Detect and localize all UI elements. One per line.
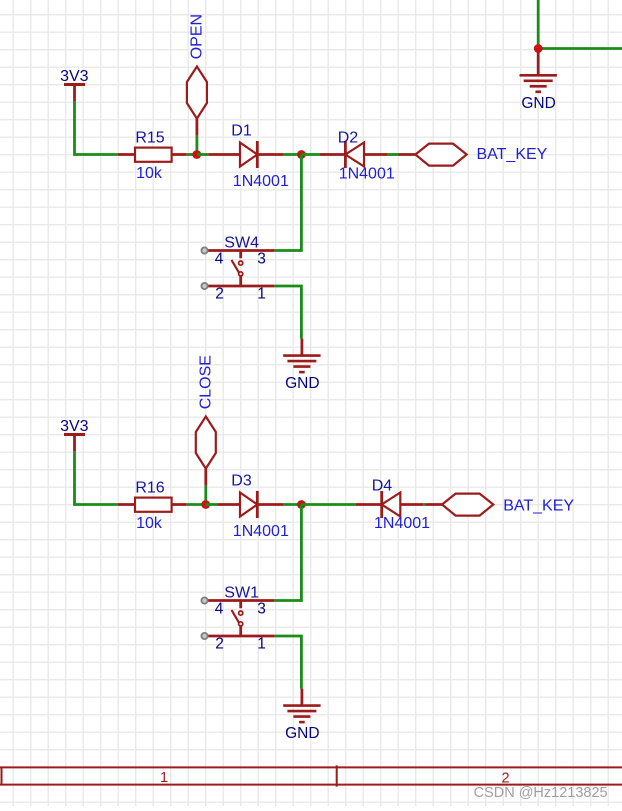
- wire diode to port: [423, 503, 425, 506]
- wire horizontal to right edge: [538, 47, 622, 50]
- resistor R15 10k: [118, 130, 187, 183]
- pin number 2: [215, 636, 224, 653]
- svg-text:R15: R15: [135, 130, 164, 147]
- wire vertical top right: [537, 0, 540, 49]
- svg-text:1N4001: 1N4001: [374, 515, 430, 532]
- ground top right: [520, 52, 557, 112]
- wire node 2 to diode D4: [301, 503, 355, 506]
- no-connect pin 2 of SW1: [201, 633, 207, 639]
- sheet border bottom lines: [0, 767, 622, 786]
- svg-text:D4: D4: [372, 478, 393, 495]
- no-connect pin 2 of SW4: [201, 283, 207, 289]
- wire switch pin 1 to ground: [274, 286, 301, 339]
- diode D3 1N4001: [217, 472, 289, 540]
- wire node 2 to diode D2: [301, 153, 319, 156]
- junction node at resistor/connector/diode: [192, 150, 201, 159]
- junction top right: [534, 44, 543, 53]
- svg-text:D1: D1: [231, 122, 252, 139]
- diode D4 1N4001 (pointing left): [356, 478, 430, 533]
- svg-text:1: 1: [160, 770, 168, 786]
- svg-text:4: 4: [215, 251, 224, 268]
- junction node 2 (to switch): [297, 500, 306, 509]
- switch SW1: [206, 585, 275, 637]
- port BAT_KEY (horizontal hexagon): [425, 494, 574, 516]
- watermark: [474, 785, 608, 801]
- sheet border zone divider: [336, 765, 338, 786]
- pin number 1: [257, 636, 266, 653]
- svg-text:4: 4: [215, 601, 224, 618]
- svg-text:CSDN @Hz1213825: CSDN @Hz1213825: [474, 785, 608, 801]
- pin number 4: [215, 251, 224, 268]
- pin number 3: [257, 601, 266, 618]
- svg-text:3V3: 3V3: [60, 68, 89, 85]
- svg-text:1: 1: [257, 636, 266, 653]
- svg-text:CLOSE: CLOSE: [198, 355, 215, 409]
- svg-text:GND: GND: [285, 375, 319, 392]
- svg-text:SW4: SW4: [224, 235, 259, 252]
- svg-text:SW1: SW1: [224, 585, 259, 602]
- junction node 2 (to switch): [297, 150, 306, 159]
- ground below switch SW4: [283, 339, 320, 393]
- wire resistor to node: [187, 503, 206, 506]
- switch SW4: [206, 235, 275, 287]
- svg-text:D2: D2: [338, 130, 359, 147]
- svg-text:3: 3: [257, 601, 266, 618]
- zone number 1: [160, 770, 168, 786]
- wire diode to node 2: [283, 153, 301, 156]
- diode D2 1N4001 (pointing left): [319, 130, 394, 183]
- svg-text:BAT_KEY: BAT_KEY: [503, 498, 574, 515]
- wire connector to node: [204, 486, 207, 505]
- svg-text:10k: 10k: [136, 165, 163, 182]
- wire switch pin 1 to ground: [274, 636, 301, 689]
- net flag connector CLOSE (vertical hexagon): [196, 355, 216, 486]
- resistor R16 10k: [118, 480, 187, 533]
- wire diode to node 2: [283, 503, 301, 506]
- no-connect pin 4 of SW1: [201, 597, 207, 603]
- ground below switch SW1: [283, 689, 320, 743]
- junction node at resistor/connector/diode: [201, 500, 210, 509]
- net flag connector OPEN (vertical hexagon): [187, 14, 207, 136]
- power symbol 3V3 (R16 rail): [60, 418, 89, 451]
- wire node to diode D3: [206, 503, 218, 506]
- svg-text:GND: GND: [285, 725, 319, 742]
- svg-text:BAT_KEY: BAT_KEY: [477, 146, 548, 163]
- wire connector to node: [195, 136, 198, 155]
- wire diode to port: [387, 153, 399, 156]
- wire 3V3 rail to resistor R16: [75, 451, 118, 504]
- svg-text:10k: 10k: [136, 515, 163, 532]
- svg-text:2: 2: [215, 286, 224, 303]
- pin number 3: [257, 251, 266, 268]
- svg-text:1N4001: 1N4001: [339, 166, 395, 183]
- diode D1 1N4001: [208, 122, 289, 190]
- svg-text:R16: R16: [135, 480, 164, 497]
- port BAT_KEY (horizontal hexagon): [399, 144, 548, 166]
- svg-text:2: 2: [215, 636, 224, 653]
- svg-text:1: 1: [257, 286, 266, 303]
- svg-text:1N4001: 1N4001: [233, 173, 289, 190]
- pin number 1: [257, 286, 266, 303]
- wire resistor to node: [187, 153, 197, 156]
- wire node 2 down to switch pin 3: [274, 155, 301, 251]
- svg-text:1N4001: 1N4001: [233, 523, 289, 540]
- power symbol 3V3 (R15 rail): [60, 68, 89, 101]
- zone number 2: [501, 770, 509, 786]
- pin number 2: [215, 286, 224, 303]
- svg-text:D3: D3: [231, 472, 252, 489]
- wire node to diode D1: [197, 153, 209, 156]
- wire node 2 down to switch pin 3: [274, 505, 301, 601]
- svg-text:OPEN: OPEN: [189, 14, 206, 59]
- svg-text:3: 3: [257, 251, 266, 268]
- no-connect pin 4 of SW4: [201, 247, 207, 253]
- svg-text:GND: GND: [521, 95, 555, 112]
- wire 3V3 rail to resistor R15: [75, 101, 118, 154]
- svg-text:3V3: 3V3: [60, 418, 89, 435]
- pin number 4: [215, 601, 224, 618]
